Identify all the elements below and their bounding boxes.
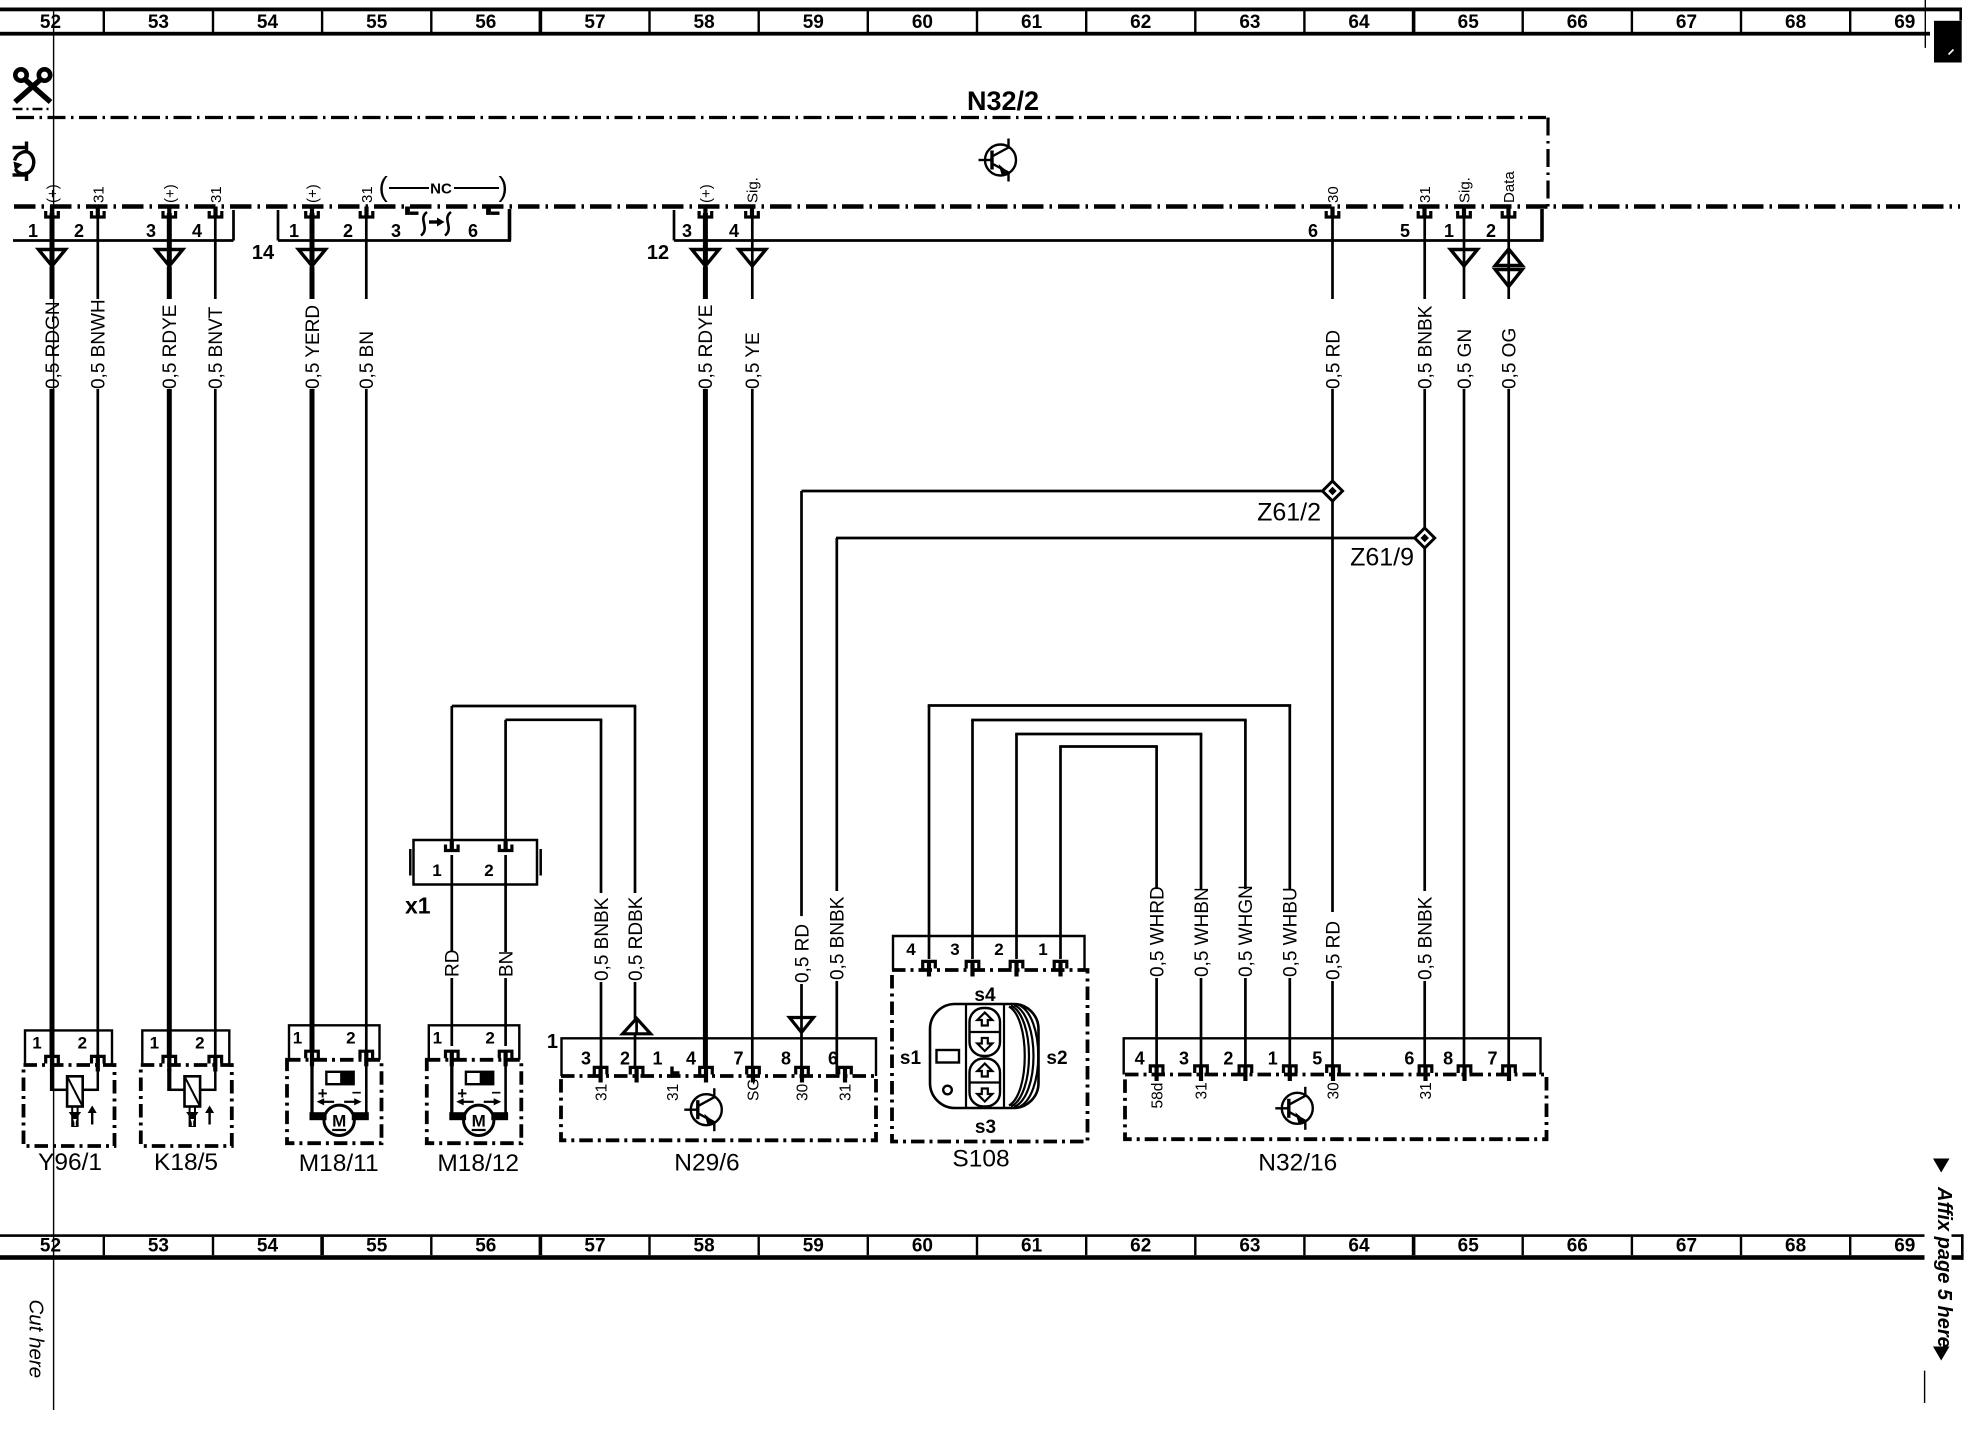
svg-text:3: 3 <box>146 221 156 241</box>
ground arrow pin1 <box>39 250 66 267</box>
svg-text:67: 67 <box>1676 12 1697 33</box>
connector group A bracket <box>13 239 234 242</box>
svg-text:31: 31 <box>838 1084 855 1101</box>
svg-text:0,5 OG: 0,5 OG <box>1500 328 1521 389</box>
Affix page 5 here (rotated) <box>1925 1159 1956 1361</box>
svg-text:6: 6 <box>1308 221 1318 241</box>
svg-text:0,5 BNBK: 0,5 BNBK <box>592 897 613 981</box>
wire 0,5 BN (14/2 -> M18/11) <box>365 213 368 299</box>
N32/2 pin 2 at x=97.8 <box>96 207 100 216</box>
wire 0,5 BNVT (pin4 -> K18/5) <box>214 213 217 299</box>
NC pin 3 <box>405 207 410 215</box>
svg-text:3: 3 <box>581 1049 591 1069</box>
M18/11 internal wiring <box>310 1064 313 1120</box>
N29/6 transistor <box>684 1088 722 1131</box>
svg-text:63: 63 <box>1239 1236 1260 1257</box>
svg-text:x1: x1 <box>405 893 431 919</box>
S108 routing wires <box>928 704 1291 707</box>
svg-text:1: 1 <box>547 1031 558 1053</box>
svg-text:5: 5 <box>1400 221 1410 241</box>
component M18/12 connector frame <box>429 1025 520 1060</box>
svg-text:61: 61 <box>1021 12 1043 33</box>
wire 0,5 RDYE (12/3 -> N29/6 pin4) <box>703 213 708 250</box>
K18/5 internal wiring <box>167 1069 171 1091</box>
N32/16 pin 6 <box>1419 1066 1432 1073</box>
connector group 12 bracket <box>674 239 1544 242</box>
N32/2 pin 3 at x=169.3 <box>167 207 171 216</box>
N32/2 pin 6 at x=1332.5 <box>1330 207 1334 216</box>
svg-text:1: 1 <box>1268 1049 1278 1069</box>
M18/11 motor M <box>324 1105 354 1135</box>
svg-text:s1: s1 <box>900 1048 922 1069</box>
svg-text:–: – <box>352 1082 361 1101</box>
svg-text:(+): (+) <box>162 184 179 203</box>
component Y96/1 connector frame <box>25 1030 112 1065</box>
svg-text:1: 1 <box>150 1034 159 1053</box>
N32/16 pin 5 <box>1327 1066 1340 1073</box>
svg-text:2: 2 <box>78 1034 87 1053</box>
N32/16 pin 4 <box>1150 1066 1163 1073</box>
N32/16 pin 8 <box>1458 1066 1471 1073</box>
ground arrow 12/4 <box>739 250 766 267</box>
N32/16 connector frame <box>1124 1038 1541 1074</box>
svg-text:0,5 BN: 0,5 BN <box>357 331 378 389</box>
svg-text:31: 31 <box>208 186 225 203</box>
svg-text:69: 69 <box>1894 1236 1915 1257</box>
svg-text:4: 4 <box>686 1049 696 1069</box>
wire 0,5 WHBN <box>1200 734 1203 890</box>
svg-text:1: 1 <box>289 221 299 241</box>
NC squiggle-arrow symbol <box>421 212 451 236</box>
svg-text:54: 54 <box>257 1236 279 1257</box>
svg-text:0,5 WHRD: 0,5 WHRD <box>1147 886 1168 977</box>
svg-text:M18/11: M18/11 <box>299 1150 379 1177</box>
component Y96/1 dash-dot box <box>24 1065 115 1146</box>
svg-text:2: 2 <box>1223 1049 1233 1069</box>
wire 0,5 WHGN <box>1244 720 1247 890</box>
Y96/1 pin 2 <box>92 1056 105 1063</box>
svg-text:s2: s2 <box>1046 1048 1067 1069</box>
N32/2 pin 4 at x=752 <box>750 207 754 216</box>
svg-text:M18/12: M18/12 <box>437 1150 519 1177</box>
svg-text:0,5 YERD: 0,5 YERD <box>303 305 324 389</box>
N32/16 pin 2 <box>1239 1066 1252 1073</box>
svg-text:31: 31 <box>1194 1082 1211 1099</box>
wire 0,5 YE (12/4 -> N29/6 pin7) <box>751 213 754 250</box>
svg-text:–: – <box>491 1082 500 1101</box>
N32/2 pin 2 at x=1508.5 <box>1506 207 1510 216</box>
svg-text:7: 7 <box>1487 1049 1497 1069</box>
svg-text:S108: S108 <box>952 1146 1009 1173</box>
svg-text:4: 4 <box>1135 1049 1145 1069</box>
svg-text:30: 30 <box>795 1083 812 1101</box>
svg-text:0,5 YE: 0,5 YE <box>743 332 764 389</box>
K18/5 pin 2 <box>209 1056 222 1063</box>
component K18/5 dash-dot box <box>141 1065 232 1146</box>
svg-text:Affix page 5 here: Affix page 5 here <box>1933 1186 1955 1348</box>
svg-text:1: 1 <box>1038 940 1047 959</box>
svg-text:(+): (+) <box>305 184 322 203</box>
svg-text:1: 1 <box>433 1029 442 1048</box>
svg-text:NC: NC <box>430 181 452 198</box>
wire 0,5 OG (12/2 -> N32/16 pin7) <box>1507 213 1510 250</box>
svg-text:SG: SG <box>746 1079 763 1101</box>
N32/16 pin 7 <box>1503 1066 1516 1073</box>
svg-text:54: 54 <box>257 12 279 33</box>
svg-text:14: 14 <box>252 242 275 264</box>
svg-text:5: 5 <box>1312 1049 1322 1069</box>
svg-text:1: 1 <box>28 221 38 241</box>
M18/12 pin 2 <box>499 1051 512 1058</box>
M18/11 pin 2 <box>360 1051 373 1058</box>
ground arrow 12/1 <box>1451 250 1478 267</box>
S108 wire pin1 up <box>1059 747 1062 960</box>
wire 0,5 WHRD <box>1155 747 1158 891</box>
svg-text:4: 4 <box>729 221 739 241</box>
Z61/2 diamond <box>1323 481 1343 501</box>
svg-text:56: 56 <box>475 12 496 33</box>
svg-text:Cut here: Cut here <box>25 1300 48 1379</box>
signal arrow above N29/6 pin2 <box>623 1018 651 1034</box>
K18/5 solenoid element <box>185 1076 201 1106</box>
svg-text:58d: 58d <box>1149 1083 1166 1109</box>
svg-text:0,5 BNBK: 0,5 BNBK <box>1416 896 1437 980</box>
ground arrow 12/3 <box>692 250 719 267</box>
svg-text:57: 57 <box>584 12 605 33</box>
svg-text:57: 57 <box>584 1236 605 1257</box>
N29/6 pin 8 <box>796 1067 809 1074</box>
svg-text:0,5 RDYE: 0,5 RDYE <box>160 305 181 389</box>
Y96/1 pin 1 <box>46 1056 59 1063</box>
K18/5 pin 1 <box>163 1056 176 1063</box>
S108 rocker arrow <box>977 1089 992 1102</box>
wire 0,5 BNBK (12/5 -> Z61/9 -> N32/16 pin6) <box>1423 213 1426 299</box>
svg-text:0,5 WHBN: 0,5 WHBN <box>1192 887 1213 977</box>
svg-text:0,5 BNBK: 0,5 BNBK <box>1416 305 1437 389</box>
x1 connector housing <box>414 840 538 885</box>
N32/2 pin 2 at x=366.5 <box>364 207 368 216</box>
svg-text:31: 31 <box>593 1084 610 1101</box>
svg-text:52: 52 <box>40 12 61 33</box>
Y96/1 internal wiring <box>50 1069 54 1091</box>
svg-text:(: ( <box>379 171 389 202</box>
M18/12 internal wiring <box>450 1064 453 1120</box>
svg-text:2: 2 <box>1486 221 1496 241</box>
component M18/12 dash-dot box <box>427 1060 522 1143</box>
svg-text:31: 31 <box>1418 1082 1435 1099</box>
svg-text:): ) <box>499 171 508 202</box>
svg-text:Y96/1: Y96/1 <box>38 1149 102 1176</box>
S108 dash-dot box <box>892 970 1088 1142</box>
svg-text:Sig.: Sig. <box>1457 177 1474 203</box>
wire 0,5 RD (Z61/2 -> N29/6 pin8) <box>800 491 803 921</box>
top ruler <box>0 8 1962 36</box>
N29/6 pin 2 <box>630 1067 643 1074</box>
wire 0,5 YERD (14/1 -> M18/11) <box>310 213 315 250</box>
N29/6 connector frame <box>562 1038 877 1076</box>
svg-text:1: 1 <box>1444 221 1454 241</box>
svg-text:8: 8 <box>781 1049 791 1069</box>
svg-text:2: 2 <box>343 221 353 241</box>
N32/16 dash-dot box <box>1125 1075 1547 1140</box>
M18/12 direction arrows <box>460 1101 474 1103</box>
svg-text:7: 7 <box>733 1049 743 1069</box>
M18/11 position indicator <box>326 1072 353 1084</box>
svg-text:1: 1 <box>652 1049 662 1069</box>
M18/12 motor M <box>464 1105 494 1135</box>
K18/5 vent symbol <box>189 1107 191 1113</box>
N29/6 pin 3 <box>594 1067 607 1074</box>
svg-text:1: 1 <box>32 1034 41 1053</box>
svg-text:0,5 RDYE: 0,5 RDYE <box>696 305 717 389</box>
svg-text:61: 61 <box>1021 1236 1043 1257</box>
svg-text:31: 31 <box>90 186 107 203</box>
svg-text:3: 3 <box>682 221 692 241</box>
S108 wire pin2 up <box>1015 734 1018 959</box>
S108 pin 1 <box>1054 961 1067 968</box>
N29/6 dash-dot box <box>561 1076 876 1140</box>
svg-text:4: 4 <box>192 221 202 241</box>
svg-text:59: 59 <box>803 12 824 33</box>
svg-text:3: 3 <box>1179 1049 1189 1069</box>
svg-text:0,5 BNVT: 0,5 BNVT <box>206 306 227 389</box>
N29/6 pin 1 <box>672 1067 680 1074</box>
svg-text:0,5 WHBU: 0,5 WHBU <box>1281 887 1302 977</box>
svg-text:59: 59 <box>803 1236 824 1257</box>
svg-text:58: 58 <box>694 1236 715 1257</box>
svg-text:M: M <box>332 1112 346 1131</box>
svg-text:M: M <box>472 1112 486 1131</box>
S108 pin 2 <box>1010 961 1023 968</box>
svg-text:4: 4 <box>906 940 916 959</box>
svg-text:K18/5: K18/5 <box>154 1149 218 1176</box>
S108 connector frame <box>893 936 1085 970</box>
x1 pin 2 <box>504 840 508 849</box>
M18/12 pin 1 <box>446 1051 459 1058</box>
wire 0,5 RDYE (pin3 -> K18/5) <box>167 213 172 250</box>
svg-text:0,5 RD: 0,5 RD <box>1323 330 1344 389</box>
svg-text:31: 31 <box>359 186 376 203</box>
control unit N32/2 dash-dot outline <box>16 116 1548 119</box>
N29/6 pin 6 <box>839 1067 852 1074</box>
svg-text:65: 65 <box>1458 1236 1480 1257</box>
svg-text:30: 30 <box>1325 186 1342 203</box>
svg-text:2: 2 <box>620 1049 630 1069</box>
svg-text:0,5 RD: 0,5 RD <box>792 924 813 983</box>
N32/2 pin 1 at x=1464 <box>1462 207 1466 216</box>
S108 pin 3 <box>966 961 979 968</box>
svg-text:6: 6 <box>828 1049 838 1069</box>
svg-text:53: 53 <box>148 1236 169 1257</box>
svg-text:64: 64 <box>1348 1236 1370 1257</box>
svg-text:3: 3 <box>950 940 959 959</box>
svg-text:0,5 RDBK: 0,5 RDBK <box>626 896 647 981</box>
svg-text:62: 62 <box>1130 12 1151 33</box>
svg-text:12: 12 <box>647 242 669 264</box>
wire 0,5 BNBK (Z61/9 -> N29/6 pin6) <box>835 538 838 891</box>
svg-text:58: 58 <box>694 12 715 33</box>
wire 0,5 RD (12/6 -> Z61/2 -> N32/16 pin5) <box>1331 213 1334 299</box>
ground arrow 14/1 <box>299 250 326 267</box>
NC pin 6 <box>486 207 491 215</box>
svg-text:52: 52 <box>40 1236 61 1257</box>
svg-text:67: 67 <box>1676 1236 1697 1257</box>
svg-text:56: 56 <box>475 1236 496 1257</box>
svg-text:N29/6: N29/6 <box>674 1150 739 1177</box>
component M18/11 dash-dot box <box>287 1060 382 1143</box>
svg-text:0,5 WHGN: 0,5 WHGN <box>1236 885 1257 977</box>
wire 0,5 BNWH (pin2 -> Y96/1) <box>96 213 99 299</box>
data bus symbol <box>1495 249 1522 266</box>
svg-text:(+): (+) <box>698 184 715 203</box>
left cut line <box>53 8 55 1410</box>
svg-text:2: 2 <box>195 1034 204 1053</box>
svg-text:2: 2 <box>74 221 84 241</box>
N32/2 pin 5 at x=1424.5 <box>1422 207 1426 216</box>
svg-text:1: 1 <box>293 1029 302 1048</box>
svg-text:30: 30 <box>1326 1082 1343 1100</box>
M18/11 pin 1 <box>306 1051 319 1058</box>
svg-text:53: 53 <box>148 12 169 33</box>
Z61/9 diamond <box>1415 528 1435 548</box>
component M18/11 connector frame <box>289 1025 380 1060</box>
S108 rocker arrow <box>977 1064 992 1077</box>
N32/2 pin 1 at x=312 <box>310 207 314 216</box>
component K18/5 connector frame <box>142 1030 229 1065</box>
svg-text:64: 64 <box>1348 12 1370 33</box>
ground arrow pin3 <box>156 250 183 267</box>
svg-text:0,5 BNBK: 0,5 BNBK <box>828 896 849 980</box>
wire BN (x1/2 -> M18/12) <box>504 855 507 954</box>
svg-text:66: 66 <box>1567 1236 1588 1257</box>
right cut mark bottom <box>1924 1371 1926 1403</box>
wire 0,5 GN (12/1 -> N32/16 pin8) <box>1463 213 1466 250</box>
svg-text:2: 2 <box>994 940 1003 959</box>
svg-text:2: 2 <box>485 1029 494 1048</box>
svg-text:2: 2 <box>346 1029 355 1048</box>
N32/16 transistor <box>1275 1087 1313 1130</box>
svg-text:Z61/9: Z61/9 <box>1350 544 1414 572</box>
svg-text:55: 55 <box>366 12 388 33</box>
Z61/9 junction line <box>836 537 1415 540</box>
svg-text:0,5 GN: 0,5 GN <box>1455 329 1476 389</box>
svg-text:N32/16: N32/16 <box>1258 1150 1337 1177</box>
svg-text:55: 55 <box>366 1236 388 1257</box>
wire RD (x1/1 -> M18/12) <box>450 855 453 954</box>
N32/16 pin 1 <box>1284 1066 1297 1073</box>
svg-text:31: 31 <box>1417 186 1434 203</box>
svg-text:31: 31 <box>665 1084 682 1101</box>
N29/6 pin 7 <box>747 1067 760 1074</box>
N32/2 pin 3 at x=705.4 <box>703 207 707 216</box>
fold-here icon <box>13 142 34 182</box>
svg-text:Z61/2: Z61/2 <box>1257 499 1321 527</box>
wire 0,5 RDGN (pin1 -> Y96/1) <box>50 213 55 250</box>
svg-text:3: 3 <box>391 221 401 241</box>
svg-text:Data: Data <box>1501 171 1518 203</box>
svg-text:68: 68 <box>1785 12 1806 33</box>
svg-text:65: 65 <box>1458 12 1480 33</box>
connector group 14 bracket <box>278 239 511 242</box>
svg-text:62: 62 <box>1130 1236 1151 1257</box>
bottom ruler <box>0 1234 1964 1260</box>
wire x1/1 up to N29/6 pin2 (0,5 RDBK) <box>450 706 453 840</box>
svg-text:s4: s4 <box>974 985 996 1006</box>
svg-text:0,5 BNWH: 0,5 BNWH <box>89 299 110 389</box>
svg-text:69: 69 <box>1894 12 1915 33</box>
M18/12 position indicator <box>466 1072 493 1084</box>
svg-text:BN: BN <box>496 951 517 977</box>
S108 pin 4 <box>923 961 936 968</box>
svg-text:60: 60 <box>912 1236 933 1257</box>
svg-text:2: 2 <box>484 861 493 880</box>
svg-text:8: 8 <box>1443 1049 1453 1069</box>
Y96/1 solenoid element <box>67 1076 83 1106</box>
S108 wire pin4 up <box>928 706 931 960</box>
svg-text:Sig.: Sig. <box>745 177 762 203</box>
svg-text:RD: RD <box>443 950 464 977</box>
M18/11 direction arrows <box>321 1101 335 1103</box>
svg-text:0,5 RD: 0,5 RD <box>1323 921 1344 980</box>
svg-text:6: 6 <box>1404 1049 1414 1069</box>
scissors cut dash <box>13 108 53 111</box>
right cut mark top <box>1924 0 1926 48</box>
Z61/2 junction line <box>802 490 1324 493</box>
svg-text:s3: s3 <box>975 1117 996 1138</box>
scissors icon <box>15 69 51 102</box>
svg-text:60: 60 <box>912 12 933 33</box>
svg-text:N32/2: N32/2 <box>967 86 1039 116</box>
S108 rocker arrow <box>977 1013 992 1026</box>
svg-text:68: 68 <box>1785 1236 1806 1257</box>
S108 wire pin3 up <box>971 720 974 959</box>
N32/16 pin 3 <box>1195 1066 1208 1073</box>
K18/5 up arrow <box>208 1112 210 1125</box>
Y96/1 up arrow <box>91 1112 93 1125</box>
wire 0,5 WHBU <box>1288 706 1291 891</box>
x1 pin 1 <box>450 840 454 849</box>
N32/2 pin 1 at x=52 <box>50 207 54 216</box>
Y96/1 vent symbol <box>71 1107 73 1113</box>
svg-text:66: 66 <box>1567 12 1588 33</box>
svg-text:63: 63 <box>1239 12 1260 33</box>
supply arrow N29/6 pin8 <box>790 1018 814 1033</box>
svg-text:1: 1 <box>432 861 441 880</box>
wire x1/2 up to N29/6 pin3 (0,5 BNBK) <box>504 720 507 840</box>
N29/6 pin 4 <box>700 1067 713 1074</box>
svg-text:6: 6 <box>468 221 478 241</box>
transistor symbol in N32/2 <box>979 139 1017 182</box>
N32/2 pin 4 at x=215.5 <box>213 207 217 216</box>
S108 rocker arrow <box>977 1038 992 1051</box>
S108 switch icon <box>930 1004 1039 1108</box>
corner film mark <box>1934 21 1962 63</box>
